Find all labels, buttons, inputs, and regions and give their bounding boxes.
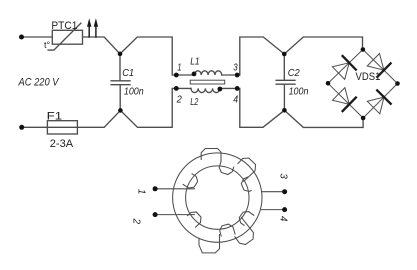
svg-text:3: 3 bbox=[233, 63, 238, 74]
svg-text:4: 4 bbox=[277, 216, 288, 222]
svg-text:4: 4 bbox=[233, 94, 238, 105]
svg-text:F1: F1 bbox=[47, 110, 63, 122]
svg-text:VDS1: VDS1 bbox=[356, 71, 381, 83]
svg-text:1: 1 bbox=[135, 189, 146, 195]
svg-text:1: 1 bbox=[177, 63, 181, 74]
svg-text:t°: t° bbox=[44, 40, 51, 50]
svg-text:100n: 100n bbox=[124, 85, 144, 97]
svg-text:AC 220 V: AC 220 V bbox=[18, 77, 60, 89]
svg-text:L1: L1 bbox=[190, 57, 199, 68]
svg-text:2: 2 bbox=[131, 218, 142, 225]
svg-text:3: 3 bbox=[277, 173, 288, 179]
svg-text:2-3A: 2-3A bbox=[50, 138, 74, 150]
svg-text:C2: C2 bbox=[288, 67, 300, 79]
svg-text:PTC1: PTC1 bbox=[51, 20, 77, 32]
svg-text:L2: L2 bbox=[190, 97, 199, 108]
svg-text:2: 2 bbox=[176, 94, 183, 105]
svg-text:100n: 100n bbox=[289, 85, 309, 97]
svg-text:C1: C1 bbox=[122, 67, 134, 79]
